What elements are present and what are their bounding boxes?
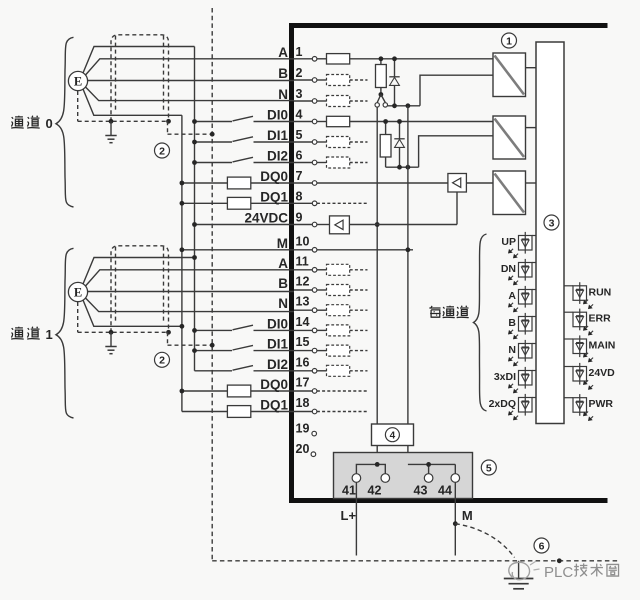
svg-text:11: 11 [296, 254, 309, 268]
internal 24VDC rail vertical [376, 107, 378, 424]
optional wire terminal 8 [317, 202, 367, 204]
wire DI clamp to isolator input 2 [419, 136, 493, 167]
wire E to A [86, 59, 295, 75]
label 通道 1 [11, 327, 24, 339]
junction clamp to M rail [406, 103, 411, 108]
terminal 6 circle [312, 160, 317, 165]
svg-text:PWR: PWR [589, 398, 614, 410]
terminal 16 wire [294, 370, 312, 372]
svg-text:UP: UP [501, 236, 516, 248]
terminal 20 circle [311, 452, 316, 457]
junction rail-M [180, 247, 185, 252]
svg-text:A: A [278, 45, 288, 60]
junction clamp resistor top [379, 56, 384, 61]
svg-text:42: 42 [368, 484, 382, 498]
terminal 7 wire [294, 182, 312, 184]
sensor E channel 1 [68, 282, 87, 301]
svg-text:12: 12 [296, 275, 310, 289]
junction rail-DI0 [192, 119, 197, 124]
input resistor (optional) terminal 13 [317, 309, 327, 311]
svg-text:B: B [278, 276, 288, 291]
input resistor (optional) terminal 3 [317, 100, 327, 102]
junction DI clamp diode top [397, 119, 402, 124]
junction DI clamp resistor top [383, 119, 388, 124]
svg-text:3xDI: 3xDI [494, 371, 516, 383]
LED ERR [564, 311, 573, 313]
wire M supply [454, 482, 456, 555]
wire isolator1 output [526, 67, 537, 69]
wire terminal 1 to isolator [350, 58, 493, 60]
wire L+ supply [355, 482, 357, 555]
svg-text:A: A [278, 256, 288, 271]
svg-text:10: 10 [296, 234, 310, 248]
svg-text:3: 3 [296, 87, 303, 101]
optional wire terminal 17 [317, 390, 367, 392]
svg-text:20: 20 [296, 442, 310, 456]
svg-text:B: B [508, 317, 516, 329]
svg-text:41: 41 [342, 484, 356, 498]
junction rail-24VDC [192, 222, 197, 227]
wire supply riser to DQ driver [456, 192, 458, 225]
svg-text:1: 1 [506, 35, 512, 47]
wire E to B [88, 80, 294, 82]
svg-text:7: 7 [296, 169, 303, 183]
svg-text:B: B [278, 66, 288, 81]
junction rail-DI1 ch1 [192, 348, 197, 353]
svg-text:DQ1: DQ1 [260, 398, 288, 413]
terminal 14 wire [294, 329, 312, 331]
LED 3xDI [532, 370, 536, 372]
clamp diode channel DI [399, 122, 401, 139]
driver DQ0 box [448, 174, 467, 193]
earth bus dashed vertical [211, 8, 213, 561]
switch DI0 channel 0 [195, 121, 233, 123]
LED DN [532, 262, 536, 264]
DI rail vertical (24VDC distribution) [194, 47, 196, 371]
terminal 5 wire [294, 141, 312, 143]
ground symbol [110, 121, 112, 135]
junction rail-DQ1 [180, 201, 185, 206]
svg-text:MAIN: MAIN [589, 340, 616, 352]
svg-text:DI2: DI2 [267, 149, 288, 164]
terminal 17 wire [294, 390, 312, 392]
clamp diode channel 0 [394, 59, 396, 77]
svg-text:24VDC: 24VDC [244, 211, 288, 226]
terminal 19 circle [312, 431, 317, 436]
svg-text:24VD: 24VD [589, 367, 616, 379]
terminal 11 wire [294, 269, 312, 271]
terminal 1 wire [294, 58, 312, 60]
terminal 2 wire [294, 79, 312, 81]
earth ground symbol bottom [518, 561, 520, 578]
svg-text:E: E [74, 74, 82, 88]
svg-text:ERR: ERR [589, 313, 612, 325]
svg-text:4: 4 [296, 108, 303, 122]
terminal 13 circle [312, 308, 317, 313]
wire M feed [182, 249, 294, 251]
svg-text:44: 44 [438, 484, 452, 498]
input resistor (optional) terminal 14 [317, 329, 327, 331]
terminal 13 wire [294, 309, 312, 311]
wire isolator3 output [526, 182, 537, 184]
LED UP [532, 235, 536, 237]
svg-text:M: M [462, 508, 473, 523]
terminal 41 [352, 474, 361, 483]
terminal 42 [381, 474, 390, 483]
wire clamp to isolator input 2 [420, 75, 493, 106]
LED PWR [564, 397, 573, 399]
terminal 4 wire [294, 121, 312, 123]
wire terminal 10 M to rail [317, 249, 413, 251]
dashed link to earth bus [167, 332, 169, 345]
load DQ0 channel 0 [182, 182, 228, 184]
bracket wires 41-42 [356, 464, 385, 473]
optional wire terminal 18 [317, 411, 367, 413]
svg-text:5: 5 [486, 462, 492, 474]
disconnect plug circles [375, 103, 379, 107]
label 通道 0 [11, 116, 24, 128]
shield drain dashed wire [77, 302, 79, 332]
isolator block 3 [493, 171, 526, 215]
terminal 44 [451, 474, 460, 483]
switch DI1 channel 1 [195, 350, 233, 352]
wire driver to isolator 3 [466, 182, 493, 184]
terminal 5 circle [312, 140, 317, 145]
svg-text:3: 3 [549, 217, 555, 229]
svg-text:1: 1 [296, 45, 303, 59]
wire E ray to rail [83, 47, 195, 74]
junction E ray ch1 on DI rail [192, 255, 197, 260]
shield drain dashed wire [77, 91, 79, 121]
svg-text:5: 5 [296, 128, 303, 142]
LED A [532, 289, 536, 291]
svg-text:N: N [278, 296, 288, 311]
junction diode bottom [392, 103, 397, 108]
svg-text:A: A [508, 290, 516, 302]
svg-text:15: 15 [296, 335, 310, 349]
brace 每通道 [474, 234, 487, 411]
cable shield channel 1 [111, 246, 169, 332]
wire E to B [88, 291, 294, 293]
channel 1 brace [56, 248, 74, 418]
terminal 14 circle [312, 328, 317, 333]
wire terminal 7 to output driver [317, 182, 448, 184]
terminal 11 circle [312, 268, 317, 273]
label circled 3 [544, 215, 559, 230]
svg-text:E: E [74, 285, 82, 299]
svg-text:2xDQ: 2xDQ [489, 398, 516, 410]
junction on earth bus [210, 132, 215, 137]
terminal 8 circle [312, 201, 317, 206]
wire terminal 9 to driver supply [317, 224, 330, 226]
junction M earth tap [453, 521, 458, 526]
input resistor (optional) terminal 16 [317, 370, 327, 372]
dashed link to earth bus [167, 121, 169, 134]
LED N [532, 343, 536, 345]
wire box4 to terminal bracket right [407, 446, 409, 465]
internal M rail vertical [407, 106, 409, 424]
junction DI clamp to M rail [406, 165, 411, 170]
svg-text:6: 6 [296, 149, 303, 163]
svg-text:8: 8 [296, 189, 303, 203]
junction shield-to-earth link [166, 330, 171, 335]
terminal 17 circle [312, 389, 317, 394]
svg-text:43: 43 [414, 484, 428, 498]
junction M rail row10 [406, 247, 411, 252]
junction shield-to-earth link [166, 119, 171, 124]
wire 24VDC feed [195, 224, 295, 226]
driver supply box [330, 216, 350, 234]
LED MAIN [564, 338, 573, 340]
terminal block 5 gray box [334, 453, 473, 499]
input resistor (optional) terminal 2 [317, 79, 327, 81]
wire E ray to DQ rail [83, 300, 182, 326]
module enclosure thick border [292, 26, 608, 501]
svg-text:DQ0: DQ0 [260, 377, 288, 392]
ground symbol [110, 332, 112, 346]
cable shield channel 0 [111, 35, 169, 122]
terminal 4 circle [312, 119, 317, 124]
input resistor (optional) terminal 15 [317, 350, 327, 352]
svg-text:DN: DN [501, 263, 516, 275]
terminal 18 circle [312, 409, 317, 414]
terminal 9 wire [294, 224, 312, 226]
junction shield-ground [109, 330, 114, 335]
DQ rail vertical (M distribution) [181, 115, 183, 411]
svg-text:6: 6 [539, 540, 545, 552]
wire E to A [86, 270, 295, 286]
junction rail-DQ0 [180, 181, 185, 186]
svg-text:19: 19 [296, 421, 310, 435]
svg-text:DI1: DI1 [267, 128, 289, 143]
terminal 6 wire [294, 162, 312, 164]
clamp resistor channel DI [385, 122, 387, 135]
terminal 7 circle [312, 181, 317, 186]
junction DI diode bottom [397, 165, 402, 170]
terminal 10 circle [312, 248, 317, 253]
wire box4 to terminal bracket left [376, 446, 378, 465]
input resistor terminal 4 [317, 121, 327, 123]
terminal 2 circle [312, 78, 317, 83]
LED 24VD [564, 366, 573, 368]
svg-text:1: 1 [46, 327, 53, 342]
label 每通道 [429, 306, 440, 317]
terminal 16 circle [312, 369, 317, 374]
svg-text:DI0: DI0 [267, 316, 288, 331]
switch DI2 channel 1 [195, 370, 233, 372]
channel 0 brace [56, 37, 74, 207]
label circled 6 [534, 538, 549, 553]
load DQ0 channel 1 [182, 390, 228, 392]
svg-text:2: 2 [296, 66, 303, 80]
junction earth bus bottom [557, 558, 562, 563]
load DQ1 channel 0 [182, 202, 228, 204]
switch DI2 channel 0 [195, 162, 233, 164]
logo mark [509, 562, 530, 579]
wire E to N [86, 87, 295, 101]
svg-text:9: 9 [296, 211, 303, 225]
terminal 43 [424, 474, 433, 483]
input resistor (optional) terminal 12 [317, 289, 327, 291]
functional earth label circled 2 channel 1 [155, 352, 170, 367]
terminal 18 wire [294, 411, 312, 413]
clamp common wire channel 0 [388, 105, 420, 107]
svg-text:L+: L+ [341, 508, 357, 523]
svg-text:DQ0: DQ0 [260, 169, 288, 184]
bracket wires 43-44 [408, 464, 455, 473]
svg-text:M: M [277, 236, 288, 251]
input resistor (optional) terminal 5 [317, 141, 327, 143]
svg-text:N: N [278, 87, 288, 102]
terminal 3 wire [294, 100, 312, 102]
svg-text:PLC: PLC [544, 564, 573, 581]
wire driver supply out [349, 224, 457, 226]
svg-text:13: 13 [296, 295, 310, 309]
terminal 15 wire [294, 350, 312, 352]
input resistor (optional) terminal 6 [317, 162, 327, 164]
isolator block 1 [493, 53, 526, 97]
terminal 1 circle [312, 57, 317, 62]
load DQ1 channel 1 [182, 411, 228, 413]
LED RUN [564, 285, 573, 287]
svg-text:18: 18 [296, 396, 310, 410]
isolator block 2 [493, 116, 526, 159]
junction rail-DI1 [192, 140, 197, 145]
junction rail-DI0 ch1 [192, 328, 197, 333]
svg-text:DQ1: DQ1 [260, 189, 288, 204]
earth bus dashed horizontal [212, 560, 618, 562]
terminal 8 wire [294, 202, 312, 204]
clamp common wire DI [386, 166, 419, 168]
svg-text:DI2: DI2 [267, 357, 288, 372]
wire terminal 4 to isolator [350, 121, 493, 123]
svg-text:2: 2 [159, 145, 165, 157]
junction clamp diode top [392, 56, 397, 61]
sensor E channel 0 [68, 71, 87, 90]
svg-text:4: 4 [390, 430, 396, 441]
wire E to N [86, 298, 295, 312]
terminal 10 wire [294, 249, 312, 251]
wire E ray to rail [83, 258, 195, 285]
terminal 12 circle [312, 288, 317, 293]
svg-text:17: 17 [296, 376, 310, 390]
svg-text:0: 0 [46, 116, 53, 131]
input resistor (optional) terminal 11 [317, 269, 327, 271]
svg-text:16: 16 [296, 355, 310, 369]
label circled 5 [481, 460, 496, 475]
terminal 15 circle [312, 348, 317, 353]
junction on earth bus [210, 343, 215, 348]
terminal 3 circle [312, 99, 317, 104]
dashed earth curve from M [455, 524, 514, 558]
terminal 12 wire [294, 289, 312, 291]
LED 2xDQ [532, 397, 536, 399]
clamp resistor channel 0 [380, 59, 382, 65]
power supply box 4 [372, 424, 414, 446]
input resistor terminal 1 [317, 58, 327, 60]
backplane interface block [536, 42, 564, 424]
svg-text:DI0: DI0 [267, 108, 288, 123]
svg-text:14: 14 [296, 315, 310, 329]
svg-text:2: 2 [159, 355, 165, 367]
junction rail-DI2 [192, 160, 197, 165]
label circled 1 [502, 33, 517, 48]
wire isolator2 output [526, 127, 537, 129]
svg-text:RUN: RUN [589, 286, 612, 298]
junction shield-ground [109, 119, 114, 124]
switch DI1 channel 0 [195, 141, 233, 143]
junction E ray ch1 on DQ rail [180, 324, 185, 329]
junction rail-DQ0 ch1 [180, 389, 185, 394]
svg-text:DI1: DI1 [267, 337, 289, 352]
wire E ray to DQ rail [83, 89, 182, 115]
LED B [532, 316, 536, 318]
functional earth label circled 2 channel 0 [155, 143, 170, 158]
switch DI0 channel 1 [195, 329, 233, 331]
terminal 9 circle [312, 222, 317, 227]
svg-text:N: N [508, 344, 516, 356]
junction 24VDC rail [375, 222, 380, 227]
